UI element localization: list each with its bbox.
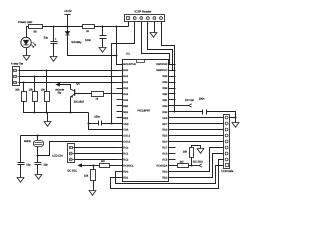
pin stub right VDD <box>169 111 176 113</box>
node junction rail/100n <box>102 26 104 28</box>
svg-text:2SC1815: 2SC1815 <box>74 101 85 104</box>
pin stub left RE0 <box>117 105 123 107</box>
svg-text:Power LED: Power LED <box>18 20 32 24</box>
ground below C2 <box>35 175 42 180</box>
svg-text:RD6: RD6 <box>162 129 168 132</box>
capacitor C 15p OSC1 side <box>20 136 22 163</box>
wire MCLR net vertical <box>117 27 123 65</box>
wire SDA 10k to ground arm <box>192 146 201 149</box>
node junction VSS/gnd <box>235 117 237 119</box>
svg-text:RD2: RD2 <box>162 176 168 179</box>
pin stub left RA3 <box>117 88 123 90</box>
svg-text:10k: 10k <box>84 174 89 177</box>
resistor R 1k0 series SCL <box>100 164 110 168</box>
wire ICSP pin6 VDD to right VDD net <box>162 22 175 112</box>
svg-text:RC6: RC6 <box>162 153 168 156</box>
svg-text:33u: 33u <box>44 37 49 40</box>
ground below C1 <box>17 178 24 183</box>
svg-text:4 way Sw: 4 way Sw <box>11 62 24 66</box>
pin stub right RC7 <box>169 147 176 149</box>
svg-text:LCD Data: LCD Data <box>221 170 233 173</box>
pin stub left RC3/SCL <box>117 165 123 167</box>
wire OSC1 net <box>21 135 123 137</box>
node junction ICSP VDD / VDD right wire <box>174 111 176 113</box>
wire SCL resistor to RC3 <box>110 165 117 167</box>
wire relay drive to Q1 collector <box>57 85 71 90</box>
svg-text:10k: 10k <box>29 89 34 92</box>
svg-text:RD1: RD1 <box>123 176 129 179</box>
svg-text:RB6/PGC: RB6/PGC <box>156 69 167 72</box>
resistor R 10k pulldown 1 <box>23 83 25 92</box>
ground SDA pull <box>197 149 204 154</box>
ground below 100n <box>99 48 106 53</box>
off-page arrow Unlock Rly <box>56 83 59 86</box>
pin stub left RD1 <box>117 177 123 179</box>
pin stub left RA5 <box>117 99 123 101</box>
svg-text:MCLR/THV: MCLR/THV <box>123 63 136 66</box>
node junction sw1/pulldown <box>46 70 48 72</box>
svg-text:RE2: RE2 <box>123 117 128 120</box>
resistor R 10k SCL pull <box>93 166 95 170</box>
node junction schottky/MCLR vertical <box>116 55 118 57</box>
svg-text:Schottky: Schottky <box>71 41 82 44</box>
wire ICSP pin3 PGD to RB7 <box>142 22 176 65</box>
svg-text:RD4: RD4 <box>162 141 168 144</box>
pin stub right RD3 <box>169 171 176 173</box>
ground below ICSP <box>150 33 157 38</box>
svg-text:RD7: RD7 <box>162 123 168 126</box>
node junction SCL/10k <box>93 165 95 167</box>
wire switch line 3 to RA2 <box>20 82 117 84</box>
pin stub right RD2 <box>169 177 176 179</box>
svg-text:6MHz: 6MHz <box>24 140 31 143</box>
pin stub right RB0 <box>169 105 176 107</box>
wire ICSP pin2 VDD to left VDD branch <box>112 22 135 124</box>
wire RD2 to LCD data pin6 <box>176 154 224 178</box>
svg-text:RB7/PGD: RB7/PGD <box>156 63 167 66</box>
ground right of LCD data <box>232 123 239 128</box>
wire RC4 SDA net <box>176 165 178 167</box>
off-page arrow I2C SDA <box>199 164 202 167</box>
svg-text:RB1: RB1 <box>163 99 168 102</box>
svg-text:100n: 100n <box>199 98 205 101</box>
capacitor C 33u electrolytic <box>53 27 55 42</box>
resistor R 1k0 series SDA <box>178 164 189 168</box>
wire 100n to ground <box>102 39 104 48</box>
wire RD3 to LCD data pin5 <box>176 148 224 172</box>
ground below LED <box>23 56 30 61</box>
wire LCD ctrl 2 to RC1 <box>75 153 117 155</box>
resistor R 10k SDA pull <box>191 158 193 166</box>
ground below switch resistors <box>44 122 51 127</box>
svg-text:1k0: 1k0 <box>179 160 184 163</box>
node junction SDA/10k <box>191 165 193 167</box>
wire 33u to ground <box>53 44 55 57</box>
pin stub right RB3 <box>169 88 176 90</box>
pin stub left OSC1 <box>117 135 123 137</box>
diode D1 Schottky <box>67 27 69 32</box>
off-page arrow DC Fail <box>189 104 192 107</box>
connector J LCD Ctrl <box>68 144 75 163</box>
wire ICSP pin5 to ground <box>154 22 156 33</box>
connector J ICSP header <box>125 15 165 22</box>
wire C2 to ground <box>37 165 39 175</box>
wire stem to ground right <box>235 118 237 123</box>
svg-text:15p: 15p <box>43 164 48 167</box>
resistor R 10k pulldown 2 <box>34 77 36 92</box>
off-page arrow I2C SCL <box>78 164 81 167</box>
svg-text:RD3: RD3 <box>162 170 168 173</box>
pin stub right RC6 <box>169 153 176 155</box>
wire LCD ctrl 1 to RC0 <box>75 147 117 149</box>
svg-text:RA2: RA2 <box>123 81 128 84</box>
svg-text:15p: 15p <box>26 164 31 167</box>
wire ground stem switch bus <box>47 113 49 122</box>
wire RD4 to LCD data pin4 <box>176 141 224 143</box>
pin stub left VSS <box>117 129 123 131</box>
wire OSC2 net <box>38 142 123 156</box>
pin stub right RB2 <box>169 93 176 95</box>
connector J 4-way switch <box>13 67 20 86</box>
resistor R 68 power LED <box>29 25 43 29</box>
wire RD7 to LCD data pin1 <box>176 123 224 125</box>
svg-text:ICSP Header: ICSP Header <box>135 10 152 14</box>
svg-text:RB5: RB5 <box>163 75 168 78</box>
wire switch line 1 to RA0 <box>20 70 117 72</box>
svg-text:10k: 10k <box>15 89 20 92</box>
svg-text:100n: 100n <box>85 39 91 42</box>
pin stub left RC1 <box>117 153 123 155</box>
svg-text:VDD: VDD <box>123 123 128 126</box>
wire RB0 to DC Fail <box>176 105 189 107</box>
wire I2C SCL net <box>79 165 94 167</box>
pin stub left OSC2 <box>117 141 123 143</box>
crystal X1 6MHz <box>37 136 39 141</box>
node junction rail/MCLR drop <box>116 26 118 28</box>
pin stub right RD4 <box>169 141 176 143</box>
pin stub right RB6/PGC <box>169 70 176 72</box>
svg-text:68: 68 <box>34 30 37 33</box>
node junction bus/Q1 emitter <box>70 112 72 114</box>
svg-text:RB3: RB3 <box>163 87 168 90</box>
pin stub right RC4/SDA <box>169 165 176 167</box>
svg-text:RE1: RE1 <box>123 111 128 114</box>
svg-text:RB2: RB2 <box>163 93 168 96</box>
pin stub right RD7 <box>169 123 176 125</box>
wire VDD right to decoupling cap <box>176 111 203 113</box>
svg-text:U1: U1 <box>126 53 130 56</box>
svg-text:VDD: VDD <box>162 111 167 114</box>
pin stub right RD5 <box>169 135 176 137</box>
node junction gnd/100n decoupling <box>88 123 90 125</box>
pin stub left RC0 <box>117 147 123 149</box>
wire Schottky diode to MCLR node <box>68 36 117 56</box>
svg-text:RD0: RD0 <box>123 170 129 173</box>
node junction crystal/OSC2/C2 <box>37 155 39 157</box>
svg-text:Q1: Q1 <box>76 82 80 85</box>
svg-text:RE0: RE0 <box>123 105 128 108</box>
node junction bus/R2 <box>34 112 36 114</box>
svg-text:10k: 10k <box>41 89 46 92</box>
svg-text:I2C SDA: I2C SDA <box>193 160 203 163</box>
svg-text:+3.3V: +3.3V <box>64 9 72 13</box>
svg-text:OSC1: OSC1 <box>123 135 130 138</box>
node junction rail/+3.3V/diode <box>67 26 69 28</box>
connector J LCD Data <box>224 115 230 169</box>
svg-text:RC4/SDA: RC4/SDA <box>157 164 168 167</box>
wire SDA resistor to junction <box>189 165 192 167</box>
resistor R 10k pulldown 3 <box>46 71 48 92</box>
pin stub right RB5 <box>169 76 176 78</box>
pin stub right RB7/PGD <box>169 64 176 66</box>
svg-text:LCD Ctrl: LCD Ctrl <box>52 154 63 157</box>
svg-text:RA3: RA3 <box>123 87 128 90</box>
wire LED to ground <box>26 48 28 56</box>
pin stub left RC2 <box>117 159 123 161</box>
wire ICSP pin1 Vpp to rail <box>128 22 130 27</box>
pin stub right RD6 <box>169 129 176 131</box>
svg-text:RC3/SCL: RC3/SCL <box>123 164 134 167</box>
svg-text:VSS: VSS <box>123 129 128 132</box>
wire LCD ctrl 3 to RC2 <box>75 159 117 161</box>
wire 100n to ground corner <box>207 112 236 118</box>
wire SCL 10k to ground <box>93 181 95 191</box>
svg-text:100n: 100n <box>94 116 100 119</box>
pin stub left RE2 <box>117 117 123 119</box>
pin stub left RA2 <box>117 82 123 84</box>
svg-text:VSS: VSS <box>162 117 167 120</box>
pin stub right VSS <box>169 117 176 119</box>
power flag +3.3V <box>67 15 69 27</box>
wire RD6 to LCD data pin2 <box>176 129 224 131</box>
node junction sw3/pulldown <box>23 82 25 84</box>
capacitor C 100n MCLR filter <box>102 27 104 36</box>
wire Q1 base to resistor <box>75 93 92 95</box>
svg-text:RA5: RA5 <box>123 99 128 102</box>
pin stub left VDD <box>117 123 123 125</box>
wire SDA to off-page arrow <box>192 165 199 167</box>
svg-text:1k0: 1k0 <box>101 160 106 163</box>
power rail +3.3V / MCLR net <box>27 26 29 28</box>
wire RD5 to LCD data pin3 <box>176 135 224 137</box>
wire SCL to series resistor <box>94 165 100 167</box>
svg-text:RC5: RC5 <box>162 158 168 161</box>
svg-text:RB4: RB4 <box>163 81 168 84</box>
wire C1 to ground <box>20 165 22 178</box>
svg-text:RC2: RC2 <box>123 158 129 161</box>
pin stub right RC5 <box>169 159 176 161</box>
capacitor C 100n decoupling VDD left <box>89 123 99 125</box>
svg-text:RD5: RD5 <box>162 135 168 138</box>
ground below 33u <box>50 57 57 62</box>
pin stub left RA1 <box>117 76 123 78</box>
node junction bus/R3 gnd <box>46 112 48 114</box>
wire VSS right to ground <box>176 117 236 119</box>
node junction OSC1/crystal <box>37 135 39 137</box>
svg-text:RB0: RB0 <box>163 105 168 108</box>
wire pulldown common ground bus <box>24 102 89 113</box>
resistor R 1k MCLR pull-up <box>83 25 95 29</box>
svg-text:PIC16F87: PIC16F87 <box>138 109 151 113</box>
resistor R 1k base <box>92 92 104 97</box>
pin stub left RA0 <box>117 70 123 72</box>
wire ground bus to VSS left <box>89 113 123 130</box>
wire RD1 to LCD data pin7 <box>111 160 224 189</box>
svg-text:OSC2: OSC2 <box>123 141 130 144</box>
wire Q1 emitter to ground bus <box>70 97 72 113</box>
svg-text:DC Fail: DC Fail <box>185 99 194 102</box>
pin stub left RE1 <box>117 111 123 113</box>
svg-text:RA4: RA4 <box>123 93 128 96</box>
svg-text:10k: 10k <box>183 151 188 154</box>
pin stub right RB1 <box>169 99 176 101</box>
svg-text:+: + <box>55 37 57 41</box>
node junction rail/LED cap <box>53 26 55 28</box>
LED D2 power indicator <box>21 37 31 47</box>
pin stub left RA4 <box>117 93 123 95</box>
node junction sw2/pulldown <box>34 76 36 78</box>
capacitor C 100n decoupling right <box>202 110 204 115</box>
svg-text:RC0: RC0 <box>123 147 129 150</box>
wire switch line 2 to RA1 <box>20 76 117 78</box>
pin stub left RD0 <box>117 171 123 173</box>
svg-text:RC1: RC1 <box>123 153 129 156</box>
pin stub left MCLR/THV <box>117 64 123 66</box>
ground below SCL resistor <box>89 191 96 196</box>
wire base resistor to RA4 <box>104 93 117 95</box>
svg-text:RA0: RA0 <box>123 69 128 72</box>
wire ICSP pin4 PGC to RB6 <box>148 22 176 71</box>
pin stub right RB4 <box>169 82 176 84</box>
svg-text:RA1: RA1 <box>123 75 128 78</box>
svg-text:I2C SCL: I2C SCL <box>67 169 77 172</box>
node junction VDD left / ICSP power <box>111 123 113 125</box>
capacitor C 15p OSC2 side <box>37 156 39 163</box>
svg-text:RC7: RC7 <box>162 147 168 150</box>
wire rail to LED <box>27 27 29 38</box>
wire RD0 to LCD data pin8 <box>116 166 224 184</box>
